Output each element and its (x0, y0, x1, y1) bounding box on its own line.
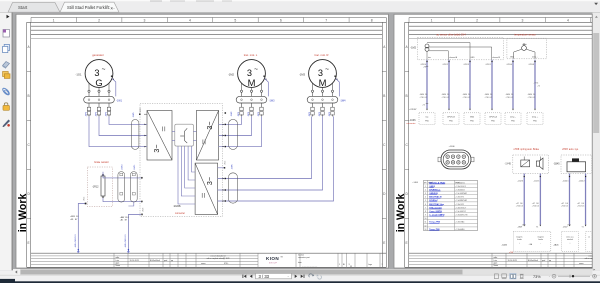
toolbar remnant marks (150, 0, 162, 2)
svg-text:+T10 0.2: +T10 0.2 (485, 97, 493, 99)
svg-text:E: E (406, 241, 408, 245)
svg-text:magnet.: magnet. (516, 235, 523, 238)
svg-text:STILL: STILL (224, 263, 229, 265)
wire M2 phase 1 (218, 116, 312, 178)
node battery negative (77, 249, 79, 251)
svg-text:GND: GND (470, 117, 475, 119)
wire brake + (102, 172, 104, 174)
siren B45 (572, 158, 579, 161)
svg-text:3~: 3~ (205, 121, 214, 129)
svg-text:owner: owner (579, 262, 584, 265)
thermal contact pins of motor M1 traction left (263, 76, 264, 77)
cable -1W3 (236, 96, 267, 103)
svg-text:pq: pq (171, 260, 173, 262)
wire battery positive (128, 215, 141, 253)
svg-text:12: 12 (424, 225, 426, 227)
wire sensor signal temp. + (534, 60, 536, 109)
svg-text:.........................: ......................... (302, 266, 318, 268)
encoder B1 symbol (425, 44, 429, 48)
svg-text:2: 2 (476, 18, 478, 22)
converter pin temp. + (527, 113, 543, 125)
svg-text:temperature sensor: temperature sensor (514, 33, 536, 36)
svg-text:+T10 0.2: +T10 0.2 (506, 97, 514, 99)
svg-text:+T-b GMP/A2: +T-b GMP/A2 (455, 192, 467, 195)
wire sensor signal trac (426, 60, 428, 109)
svg-text:-1T34: -1T34 (534, 83, 539, 85)
svg-text:DFUR_B: DFUR_B (447, 117, 455, 119)
svg-text:uTR8: spring auto. Brake: uTR8: spring auto. Brake (514, 148, 540, 151)
sidebar icon: stacked folders (3, 72, 9, 77)
svg-text:·: · (549, 274, 550, 279)
converter pin temp. - (505, 113, 521, 125)
svg-text:-1W3: -1W3 (269, 99, 275, 102)
sensor wire of generator G1 (112, 79, 116, 97)
converter pin DFUR_B (443, 113, 459, 125)
svg-text:gepr.: gepr. (116, 262, 121, 265)
cable marker M2 feed (228, 173, 237, 203)
wire output -2J04:1 (569, 174, 571, 225)
sidebar icon: page thumbnail (3, 30, 10, 38)
chopper side stubs (172, 131, 175, 133)
wire output -2J04:2 (585, 174, 587, 225)
bus rail lines (31, 25, 383, 27)
svg-text:+T10 0.5: +T10 0.5 (577, 205, 584, 207)
fuse in cable 1 (120, 173, 123, 176)
svg-text:G: G (95, 77, 102, 88)
svg-text:generator: generator (92, 53, 104, 57)
svg-text:Start: Start (18, 5, 28, 10)
svg-text:pq: pq (549, 260, 551, 262)
svg-text:1: 1 (53, 18, 55, 22)
svg-text:KION: KION (266, 256, 279, 261)
page layout icons (495, 274, 499, 279)
svg-text:4: 4 (567, 18, 569, 22)
right schematic page (394, 14, 592, 268)
tab document (active) (60, 2, 119, 12)
svg-text:FN0: FN0 (470, 121, 473, 123)
sidebar icon: copy pages (4, 44, 9, 50)
wire chopper out 4 (188, 146, 195, 180)
svg-text:+BAT 13.8: +BAT 13.8 (120, 216, 129, 219)
svg-text:in Work: in Work (395, 194, 407, 233)
svg-text:ged: ged (542, 260, 545, 262)
thermal contact pins of motor M2 traction right (334, 76, 335, 77)
status bar (0, 275, 600, 281)
encoder B1 enclosure (418, 38, 504, 60)
wire chopper out 3 (185, 146, 195, 188)
svg-text:traction: traction (298, 253, 304, 256)
svg-text:interlock: interlock (567, 238, 573, 241)
svg-text:E: E (28, 241, 30, 245)
svg-text:=BR+1W11-01: =BR+1W11-01 (125, 234, 127, 248)
svg-text:converter part: converter part (298, 256, 310, 259)
vertical scrollbar (592, 13, 600, 271)
svg-text:FN0: FN0 (491, 121, 494, 123)
svg-text:sens. acu.: sens. acu. (566, 236, 574, 238)
svg-text:+T6: +T6 (422, 105, 425, 107)
svg-text:brake: brake (517, 239, 522, 241)
svg-text:-1W10: -1W10 (121, 164, 123, 171)
wire sensor signal GND (469, 60, 471, 109)
svg-text:3~: 3~ (152, 144, 161, 152)
svg-text:with a complete value(K) 1074: with a complete value(K) 1074 (207, 257, 230, 260)
svg-text:~: ~ (254, 66, 258, 73)
svg-text:uT08: uT08 (509, 252, 513, 254)
svg-text:3: 3 (522, 18, 524, 22)
svg-text:FN0: FN0 (425, 121, 428, 123)
actuator box magnet brake (513, 232, 551, 252)
wire sensor signal DFUR_A (491, 60, 493, 109)
svg-text:owner: owner (201, 262, 206, 265)
svg-text:B: B (383, 94, 385, 98)
svg-text:+BR8 5.8: +BR8 5.8 (70, 216, 78, 218)
horn B44 (536, 161, 539, 166)
chopper module U4 (175, 124, 194, 146)
svg-text:-1J12:3: -1J12:3 (463, 64, 469, 66)
svg-text:+T10 0.5: +T10 0.5 (561, 205, 568, 207)
svg-text:FN0: FN0 (533, 121, 536, 123)
svg-text:-1M2: -1M2 (228, 72, 235, 76)
svg-text:Lutz: Lutz (116, 259, 120, 262)
wire M1 phase 1 (219, 116, 242, 124)
svg-text:~: ~ (102, 66, 106, 73)
svg-text:M: M (319, 77, 327, 88)
wire M1 phase 3 (219, 116, 262, 146)
svg-text:3: 3 (144, 18, 146, 22)
rotate view icons (309, 274, 313, 277)
brake resistor R12 enclosure (87, 167, 112, 207)
sidebar icon: lock (3, 106, 9, 111)
cable -1W1 (84, 96, 115, 103)
svg-text:item:: item: (298, 261, 302, 264)
svg-text:5: 5 (425, 200, 426, 202)
svg-text:-1J12:4: -1J12:4 (420, 64, 426, 66)
wire chopper out 1 (178, 146, 195, 204)
svg-text:11: 11 (425, 222, 427, 224)
svg-text:+T-BrO/A5: +T-BrO/A5 (455, 221, 464, 224)
converter pin trac (419, 113, 435, 125)
svg-text:4: 4 (189, 18, 191, 22)
svg-text:converter: converter (175, 212, 185, 215)
svg-text:FN0: FN0 (511, 121, 514, 123)
svg-text:T1: T1 (581, 226, 583, 228)
svg-text:+T-BrO/T1: +T-BrO/T1 (455, 196, 464, 199)
svg-text:trac. mot. L: trac. mot. L (244, 53, 258, 57)
drawing frame (31, 17, 386, 19)
svg-text:-1W4: -1W4 (340, 99, 346, 102)
wire brake - (103, 198, 141, 202)
cable marker W5 (132, 120, 139, 150)
svg-text:+: + (519, 243, 520, 245)
svg-text:1T10: 1T10 (567, 224, 571, 226)
svg-text:Norm: Norm (116, 264, 121, 267)
sidebar icon: paperclip (2, 87, 11, 96)
svg-text:+T10 0.5: +T10 0.5 (532, 205, 539, 207)
wire sensor signal DFUR_B (448, 60, 450, 109)
encoder internal wires (427, 42, 470, 44)
svg-text:-1W11: -1W11 (134, 164, 136, 171)
wire chopper out 2 (181, 146, 195, 196)
svg-text:GROUP: GROUP (269, 263, 277, 265)
svg-text:temp. -: temp. - (510, 116, 516, 119)
svg-text:-1W1: -1W1 (116, 99, 122, 102)
svg-text:~: ~ (325, 66, 329, 73)
svg-text:ac sensor drive (side) 1N4: ac sensor drive (side) 1N4 (436, 33, 466, 36)
tab Start (inactive) (8, 3, 60, 13)
svg-text:uTR8: auto. sys.: uTR8: auto. sys. (562, 148, 579, 151)
svg-text:10: 10 (424, 218, 426, 220)
wire output -1J12:5 (539, 174, 541, 225)
svg-text:-1U06: -1U06 (409, 120, 416, 122)
title block (31, 252, 387, 254)
svg-text:+T10 0.2: +T10 0.2 (463, 97, 471, 99)
node battery positive (128, 249, 130, 251)
svg-text:+T-BuS/D4: +T-BuS/D4 (455, 189, 464, 191)
svg-text:3: 3 (425, 193, 426, 195)
svg-text:6: 6 (280, 18, 282, 22)
wire tick +T6 (426, 65, 428, 67)
svg-text:Norm: Norm (494, 264, 499, 267)
svg-text:+C28 B7: +C28 B7 (409, 109, 416, 111)
svg-text:8: 8 (371, 18, 373, 22)
svg-text:-1W5: -1W5 (133, 112, 135, 118)
svg-text:-1B45: -1B45 (553, 163, 560, 165)
actuator box interlock (562, 232, 579, 252)
svg-text:7: 7 (325, 18, 327, 22)
converter unit 1U06 enclosure (140, 104, 223, 217)
page navigation controls (243, 275, 253, 278)
siren B45 enclosure (561, 155, 592, 174)
bus rail lines (409, 25, 593, 27)
svg-text:+T10 0.2: +T10 0.2 (420, 97, 428, 99)
column ruler (408, 18, 410, 23)
svg-text:channel A: channel A (449, 56, 458, 59)
wire M1 phase 2 (219, 116, 252, 135)
svg-text:+T10 0.2: +T10 0.2 (528, 97, 536, 99)
svg-text:-1W6: -1W6 (232, 164, 234, 170)
svg-text:19.10.2021: 19.10.2021 (130, 260, 139, 262)
tab-list button (594, 3, 598, 5)
svg-text:-1J12:6: -1J12:6 (517, 181, 523, 183)
svg-text:GND: GND (510, 57, 515, 59)
svg-text:1: 1 (425, 186, 426, 188)
cable marker brake 1 (118, 172, 125, 203)
svg-text:-1M2: -1M2 (410, 47, 416, 50)
svg-text:+1J06: +1J06 (412, 182, 418, 184)
svg-text:3: 3 (382, 264, 383, 266)
svg-text:+1J06: +1J06 (449, 146, 456, 148)
svg-text:brake: brake (539, 239, 544, 241)
svg-text:9: 9 (425, 215, 426, 217)
terminals of generator G1 (88, 83, 90, 90)
svg-text:2: 2 (98, 18, 100, 22)
svg-text:+T-BuS/G1: +T-BuS/G1 (455, 182, 464, 184)
svg-text:-1J12:1: -1J12:1 (485, 64, 491, 66)
column ruler (30, 18, 32, 23)
svg-text:se: se (588, 236, 590, 238)
svg-text:6: 6 (425, 204, 426, 206)
wire M2 phase 2 (218, 116, 323, 190)
svg-text:E: E (383, 241, 385, 245)
svg-text:-1J13:4: -1J13:4 (506, 64, 512, 66)
pin X075 upper (139, 113, 141, 115)
converter pin DFUR_A (485, 113, 501, 125)
svg-text:3 / 33: 3 / 33 (259, 274, 270, 279)
svg-text:+T10 0.5: +T10 0.5 (516, 205, 523, 207)
svg-text:trac: trac (428, 56, 431, 59)
svg-text:+T-BrO/21: +T-BrO/21 (455, 203, 464, 206)
svg-text:trac. mot. R: trac. mot. R (315, 53, 329, 57)
svg-text:5: 5 (234, 18, 236, 22)
left schematic page (16, 14, 388, 268)
svg-text:BGXw03w4: BGXw03w4 (150, 260, 160, 262)
svg-text:-1G1: -1G1 (76, 72, 82, 76)
svg-text:-1J12:2: -1J12:2 (442, 64, 448, 66)
terminals of motor M1 traction left (241, 83, 243, 90)
temperature sensor B2 symbol (522, 46, 527, 51)
svg-text:X0.5: X0.5 (225, 161, 227, 165)
svg-text:4: 4 (425, 197, 426, 199)
svg-text:33: 33 (350, 266, 352, 268)
svg-text:+T10 0.2: +T10 0.2 (442, 97, 450, 99)
svg-text:+T-BuS/S5.TB: +T-BuS/S5.TB (455, 215, 468, 217)
svg-text:1: 1 (339, 264, 340, 266)
svg-text:-2J04:2: -2J04:2 (579, 181, 585, 183)
svg-text:in Work: in Work (17, 194, 29, 233)
wire chopper out 5 (192, 146, 196, 172)
svg-text:7: 7 (425, 207, 426, 209)
svg-text:ged: ged (164, 260, 167, 262)
svg-text:1T08: 1T08 (522, 224, 526, 226)
svg-text:-2J04:1: -2J04:1 (563, 181, 569, 183)
svg-text:19.10.2021: 19.10.2021 (508, 260, 517, 262)
svg-text:Still Stad Pallet Forklift: ..: Still Stad Pallet Forklift: ... (67, 5, 115, 10)
svg-text:Loge: Loge (368, 264, 372, 266)
title block (409, 252, 593, 254)
svg-text:X0.6: X0.6 (142, 208, 144, 212)
sidebar icon: eraser (3, 62, 10, 68)
rectifier U1 (147, 111, 172, 161)
horizontal scrollbar (13, 269, 592, 275)
actuator box right clipped (586, 232, 592, 252)
svg-text:trac: trac (425, 116, 428, 119)
wire output -1J12:6 (523, 174, 525, 225)
wire generator phase 3 (109, 116, 147, 124)
wire generator phase 1 (89, 116, 147, 146)
cable -1W4 (307, 96, 338, 103)
pin X030 (225, 112, 227, 114)
svg-text:-1R12: -1R12 (92, 186, 99, 189)
svg-text:BGXw03w4: BGXw03w4 (528, 260, 538, 262)
svg-text:8: 8 (425, 211, 426, 213)
sensor wire of motor M1 traction left (265, 79, 269, 97)
sidebar icon: signature pen (3, 120, 10, 127)
svg-text:B: B (406, 94, 408, 98)
svg-text:73%: 73% (533, 275, 541, 279)
inverter U2 (196, 111, 218, 161)
svg-text:-1W2: -1W2 (231, 111, 233, 117)
svg-text:13: 13 (424, 229, 426, 231)
svg-text:-1J13:8: -1J13:8 (528, 64, 534, 66)
svg-text:+T-BuS/A5: +T-BuS/A5 (455, 228, 464, 231)
sidebar panel (0, 13, 12, 271)
fuse in cable 2 (132, 173, 135, 176)
terminals of motor M2 traction right (312, 83, 314, 90)
svg-text:T1: T1 (536, 226, 538, 228)
svg-text:-1M3: -1M3 (299, 72, 306, 76)
taskbar edge (0, 281, 600, 283)
converter pin GND (464, 113, 480, 125)
svg-text:+B1 B7: +B1 B7 (70, 219, 77, 221)
svg-text:temp +: temp + (532, 56, 538, 59)
brake valve Y45 enclosure (513, 155, 549, 174)
svg-text:temp. +: temp. + (532, 116, 539, 119)
svg-text:X0.5: X0.5 (83, 197, 85, 201)
svg-text:-1S07: -1S07 (563, 226, 568, 228)
svg-text:-1Y45: -1Y45 (505, 163, 512, 165)
svg-text:circuit datasheet: circuit datasheet (210, 254, 226, 257)
cable marker M1 feed (228, 119, 237, 149)
svg-text:2: 2 (425, 189, 426, 191)
svg-text:-1S09: -1S09 (517, 226, 522, 228)
svg-text:M: M (248, 77, 256, 88)
svg-text:edto: edto (116, 256, 120, 259)
svg-text:DFUR_A: DFUR_A (489, 116, 497, 119)
wire battery negative (78, 204, 85, 253)
svg-text:+T-BrO/G5.T: +T-BrO/G5.T (455, 206, 467, 209)
thermal contact pins of generator G1 (111, 76, 112, 77)
svg-text:B: B (28, 94, 30, 98)
svg-text:+T6: +T6 (423, 67, 426, 69)
tab bar background (0, 0, 600, 13)
sensor wire of motor M2 traction right (336, 79, 340, 97)
cable marker brake 2 (130, 172, 137, 203)
sidebar collapse arrow (7, 15, 10, 19)
svg-text:+T6: +T6 (537, 86, 540, 88)
brake valve Y45 (521, 160, 530, 167)
svg-text:edto: edto (494, 256, 498, 259)
svg-text:+T-b GMO/2: +T-b GMO/2 (455, 211, 465, 213)
svg-text:converter: converter (406, 122, 415, 125)
svg-text:+T-BrO/G2.1: +T-BrO/G2.1 (455, 185, 466, 188)
svg-text:+: + (570, 243, 571, 245)
wire sensor signal temp. - (512, 60, 514, 109)
svg-text:1: 1 (431, 18, 433, 22)
inverter U3 (195, 163, 218, 214)
pin U3 top phase (218, 167, 225, 169)
wire generator phase 2 (99, 116, 147, 135)
drawing frame (409, 17, 592, 19)
svg-text:brake resistor: brake resistor (94, 161, 109, 164)
svg-text:Lutz: Lutz (494, 259, 498, 262)
svg-text:+T-bJBMT/A2: +T-bJBMT/A2 (455, 199, 467, 202)
svg-text:GND: GND (471, 57, 476, 59)
svg-text:1U06: 1U06 (173, 204, 181, 208)
svg-text:X075: X075 (140, 108, 142, 112)
svg-text:+B1 B7: +B1 B7 (120, 220, 127, 222)
svg-text:▸: ▸ (594, 268, 596, 272)
svg-text:gepr.: gepr. (494, 262, 499, 265)
svg-text:=BR+1W10-01: =BR+1W10-01 (75, 233, 77, 247)
svg-text:-1A45: -1A45 (553, 243, 559, 246)
svg-text:-1J12:5: -1J12:5 (533, 181, 539, 183)
temperature sensor wires (514, 49, 522, 59)
svg-text:FN0: FN0 (449, 121, 452, 123)
svg-text:pin: pin (424, 182, 426, 184)
svg-text:magnet.: magnet. (538, 235, 545, 238)
svg-text:3~: 3~ (205, 177, 214, 185)
svg-text:-1A45: -1A45 (502, 243, 508, 246)
